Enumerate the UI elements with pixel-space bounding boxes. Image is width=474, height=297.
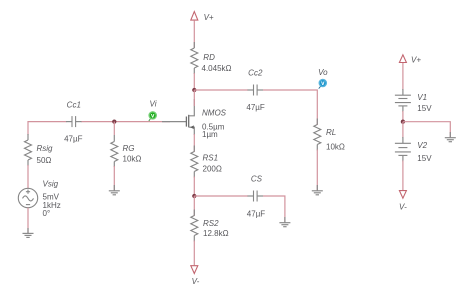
svg-text:15V: 15V (417, 154, 432, 163)
power V- arrow right (399, 191, 407, 212)
svg-text:V+: V+ (204, 13, 214, 22)
voltage source Vsig (18, 179, 60, 218)
resistor RD (191, 42, 232, 74)
ground below Vsig (23, 228, 34, 237)
svg-text:RD: RD (203, 53, 215, 62)
svg-text:RS1: RS1 (203, 153, 219, 162)
wire input horizontal left (28, 121, 67, 123)
svg-text:Cc2: Cc2 (248, 69, 263, 78)
node battery mid junction (401, 120, 405, 124)
svg-text:47µF: 47µF (64, 135, 83, 144)
wire mid node to ground corner (403, 122, 450, 138)
wire drain node down to transistor (193, 90, 195, 106)
ground below RL (312, 185, 323, 195)
wire RS2 to V- (193, 241, 195, 266)
svg-text:47µF: 47µF (247, 209, 266, 218)
power V- arrow center (191, 266, 200, 286)
svg-text:V2: V2 (417, 141, 427, 150)
wire RG vertical upper (113, 122, 115, 135)
resistor Rsig (25, 134, 54, 166)
node source junction (192, 194, 196, 198)
svg-text:RL: RL (326, 128, 336, 137)
wire Cc2 to output corner (263, 90, 317, 125)
wire V+ to RD (193, 21, 195, 48)
svg-text:V-: V- (399, 202, 407, 211)
svg-text:V1: V1 (417, 93, 427, 102)
wire RG to ground (113, 166, 115, 191)
transistor Q1 NMOS (162, 99, 227, 139)
node junction RG tap (112, 119, 116, 123)
capacitor Cc2 (246, 69, 265, 112)
power V+ arrow right (399, 55, 421, 65)
svg-text:Rsig: Rsig (37, 144, 54, 153)
wire RL to ground (316, 150, 318, 191)
wire Rsig to Vsig (27, 165, 29, 189)
svg-text:Vi: Vi (150, 100, 157, 109)
battery V2 (395, 137, 432, 163)
wire input horizontal right of Cc1 (81, 121, 170, 123)
svg-text:15V: 15V (417, 104, 432, 113)
probe Vi (149, 100, 157, 121)
wire CS to ground corner (263, 196, 285, 223)
svg-text:0°: 0° (43, 209, 51, 218)
svg-text:4.045kΩ: 4.045kΩ (202, 64, 232, 73)
battery V1 (395, 89, 432, 113)
svg-text:47µF: 47µF (246, 103, 265, 112)
svg-text:10kΩ: 10kΩ (326, 142, 345, 151)
ground below RG (109, 185, 120, 195)
wire Vsig to ground (27, 208, 29, 233)
svg-text:10kΩ: 10kΩ (123, 154, 142, 163)
svg-text:Vo: Vo (318, 68, 328, 77)
svg-text:V-: V- (192, 277, 200, 286)
wire output node to Cc2 (194, 89, 248, 91)
wire mid node to V2 (402, 122, 404, 138)
svg-text:RS2: RS2 (203, 219, 219, 228)
resistor RL (314, 119, 345, 152)
capacitor CS (247, 175, 266, 219)
wire RD to drain node (193, 73, 195, 90)
wire V2 to V- (402, 161, 404, 191)
svg-text:Cc1: Cc1 (67, 101, 81, 110)
svg-text:RG: RG (123, 144, 135, 153)
wire source node to RS2 (193, 196, 195, 216)
wire RS1 to source node (193, 177, 195, 197)
svg-text:200Ω: 200Ω (203, 164, 222, 173)
probe Vo (318, 68, 328, 89)
node drain junction (192, 88, 196, 92)
capacitor Cc1 (64, 101, 83, 144)
svg-text:1µm: 1µm (202, 130, 218, 139)
ground below CS (279, 217, 290, 227)
svg-text:NMOS: NMOS (202, 109, 227, 118)
svg-text:Vsig: Vsig (43, 179, 59, 188)
resistor RS2 (191, 210, 229, 242)
resistor RG (111, 135, 142, 167)
wire left branch vertical top (27, 121, 29, 135)
svg-text:V+: V+ (411, 56, 421, 65)
wire V1 to mid node (402, 111, 404, 122)
ground right (445, 132, 456, 142)
svg-text:CS: CS (251, 175, 263, 184)
resistor RS1 (191, 146, 222, 178)
wire source to RS1 (193, 134, 195, 152)
svg-text:12.8kΩ: 12.8kΩ (203, 229, 229, 238)
wire source node to CS (194, 195, 248, 197)
svg-text:50Ω: 50Ω (37, 156, 52, 165)
power V+ arrow center (191, 12, 214, 22)
wire V+ to V1 (402, 63, 404, 90)
